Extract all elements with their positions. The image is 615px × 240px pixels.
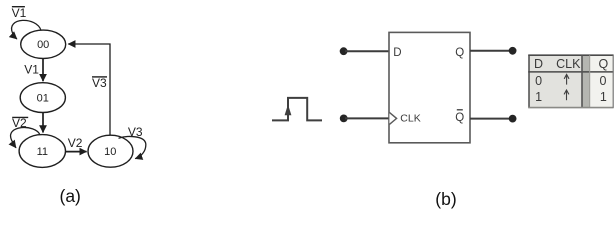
- label V3bar (10 to 00): [92, 76, 107, 90]
- self-loop on 11: [11, 127, 40, 147]
- svg-text:01: 01: [37, 92, 49, 104]
- transition arrow 11 to 10: [66, 151, 87, 153]
- svg-text:00: 00: [37, 39, 49, 51]
- svg-text:1: 1: [535, 90, 542, 104]
- self-loop on 10: [119, 136, 146, 158]
- Qbar output wire: [470, 118, 510, 120]
- truth table separator right line: [589, 55, 591, 108]
- svg-text:CLK: CLK: [556, 57, 581, 71]
- clock pulse waveform: [272, 98, 322, 121]
- Q output wire: [470, 50, 510, 52]
- state 11: [19, 135, 65, 168]
- svg-text:V2: V2: [68, 136, 83, 150]
- svg-text:11: 11: [37, 146, 48, 158]
- svg-text:10: 10: [104, 146, 116, 158]
- label V1bar (loop 00): [12, 6, 27, 20]
- Qbar output dot: [509, 115, 517, 123]
- CLK input dot: [340, 115, 348, 123]
- svg-text:(b): (b): [435, 189, 456, 209]
- svg-text:Q: Q: [599, 57, 609, 71]
- state 01: [20, 83, 65, 113]
- truth table separator left line: [581, 55, 583, 108]
- self-loop on 00: [12, 20, 41, 39]
- svg-text:Q: Q: [455, 112, 464, 124]
- label V2bar (loop 11): [12, 116, 28, 130]
- state 00: [21, 30, 66, 58]
- svg-text:D: D: [393, 47, 401, 59]
- svg-text:V1: V1: [24, 63, 39, 77]
- Q output dot: [509, 47, 517, 55]
- transition wire 10 to 00 (V3bar): [68, 44, 110, 135]
- svg-text:0: 0: [600, 74, 607, 88]
- table row1 clock up arrow: [564, 74, 569, 84]
- D input dot: [340, 47, 348, 55]
- D input wire: [345, 50, 389, 52]
- svg-text:1: 1: [600, 90, 607, 104]
- svg-text:Q: Q: [455, 47, 464, 59]
- truth table top border: [528, 54, 613, 56]
- svg-text:D: D: [534, 57, 543, 71]
- clock edge triangle: [389, 112, 396, 124]
- truth table separator band: [582, 55, 590, 107]
- truth table Q column background: [590, 55, 614, 107]
- D flip-flop box U1: [389, 32, 470, 142]
- transition arrow 01 to 11: [42, 113, 44, 133]
- truth table left border: [528, 55, 530, 108]
- rising-edge up arrowhead on waveform: [285, 104, 292, 115]
- CLK input wire: [345, 117, 389, 119]
- pin label Qbar: [455, 110, 464, 124]
- truth table right border: [612, 55, 614, 108]
- svg-text:(a): (a): [60, 186, 81, 206]
- transition arrow 00 to 01: [42, 59, 44, 82]
- table row2 clock up arrow: [564, 90, 569, 100]
- truth table background left (D CLK columns): [529, 55, 582, 107]
- truth table header underline: [528, 71, 613, 73]
- truth table bottom border: [528, 107, 613, 109]
- svg-text:V3: V3: [128, 125, 143, 139]
- state 10: [88, 135, 133, 167]
- svg-text:V1: V1: [12, 6, 27, 20]
- svg-text:V3: V3: [92, 76, 107, 90]
- svg-text:0: 0: [535, 74, 542, 88]
- svg-text:CLK: CLK: [400, 112, 420, 124]
